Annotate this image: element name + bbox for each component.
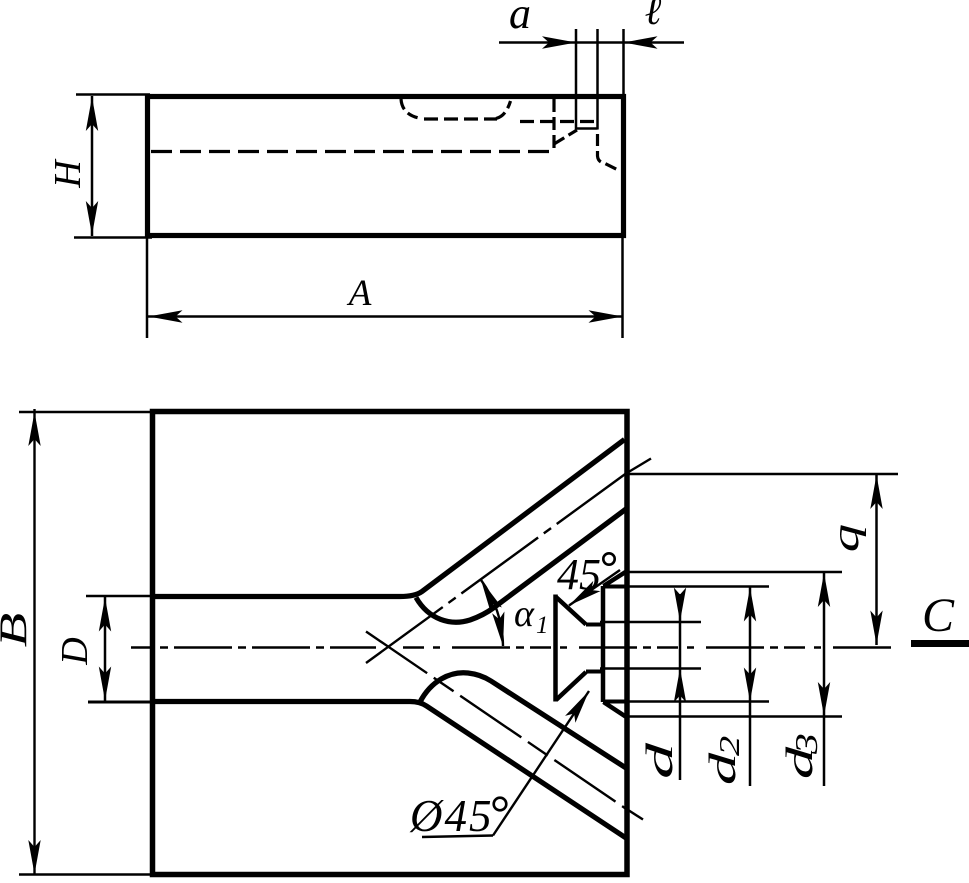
neck top (586, 623, 603, 627)
svg-text:B: B (0, 613, 35, 648)
B extension bottom (19, 873, 152, 876)
alpha1 angle arc (481, 580, 503, 646)
svg-text:d: d (702, 752, 744, 785)
A extension left (146, 237, 149, 338)
svg-text:a: a (509, 0, 531, 38)
svg-text:q: q (825, 524, 867, 552)
45 deg leader (569, 570, 620, 606)
chamfer top (604, 572, 626, 586)
horizontal centreline (131, 646, 376, 648)
B dimension line (33, 409, 35, 875)
A extension right (621, 237, 624, 338)
lower branch centreline (366, 632, 627, 810)
q dimension line (875, 475, 878, 646)
hidden line to seat (520, 120, 595, 123)
right edge extension up (622, 29, 625, 94)
hidden branch bottom line (424, 117, 497, 120)
D extension top (86, 595, 152, 598)
upper branch centreline (366, 472, 628, 663)
svg-text:H: H (47, 158, 89, 189)
bore top line (603, 585, 627, 589)
D extension bottom (88, 701, 152, 704)
svg-text:2: 2 (714, 736, 746, 756)
B extension top (19, 411, 152, 414)
H extension bottom (74, 236, 152, 239)
channel bottom line with bend into lower branch (152, 702, 626, 839)
svg-text:C: C (922, 589, 955, 642)
D dimension line (104, 596, 107, 702)
underline (422, 836, 493, 838)
svg-text:1: 1 (536, 612, 549, 639)
step wall (601, 586, 606, 702)
hidden taper diagonal (554, 130, 577, 144)
extension line d2 top (627, 585, 769, 587)
H extension top (76, 93, 150, 96)
neck bottom (586, 670, 603, 674)
svg-text:3: 3 (789, 733, 824, 755)
channel top line with bend into upper branch (152, 440, 625, 597)
svg-text:D: D (54, 637, 96, 665)
d2 dimension line (749, 587, 752, 786)
dimension a extension line (575, 29, 578, 130)
extension line d bottom (600, 667, 701, 669)
extension line d3 top (624, 571, 842, 573)
bottom view body outline (153, 412, 628, 875)
extension line d3 bottom (625, 715, 842, 717)
H dimension line (91, 96, 94, 236)
bore bottom line (603, 700, 627, 704)
hidden chamfer outlet (598, 134, 621, 171)
extension line d2 bottom (627, 700, 769, 702)
hidden seat wall vertical (552, 99, 555, 149)
d dimension line (679, 594, 682, 780)
svg-text:α: α (514, 593, 535, 635)
extension line q top (629, 473, 898, 475)
svg-text:A: A (346, 273, 372, 314)
svg-text:ℓ: ℓ (645, 0, 662, 33)
top view body outline (148, 97, 624, 236)
section mark bar (911, 640, 969, 647)
hidden runner bottom (long dashed line) (151, 150, 553, 153)
gate neck bottom (solid) (576, 127, 598, 130)
leader to lower branch (493, 691, 589, 836)
seat taper bottom (556, 672, 586, 700)
upper branch rounded end and lower-right line (416, 509, 626, 622)
chamfer bottom (604, 702, 626, 717)
svg-text:Ø45: Ø45 (409, 791, 494, 841)
seat taper top (556, 597, 586, 625)
d3 dimension line (823, 573, 826, 787)
dimension line a and l (499, 41, 684, 44)
sprue seat wall (553, 595, 558, 702)
dimension a/l middle extension line (596, 29, 599, 130)
svg-text:45: 45 (557, 550, 601, 599)
A dimension line (148, 315, 623, 318)
svg-text:d: d (639, 743, 680, 779)
hidden branch end arc left (401, 99, 421, 119)
lower branch rounded end and upper-right line (420, 673, 626, 768)
extension line d top (600, 621, 701, 623)
hidden branch end arc right (496, 101, 511, 119)
